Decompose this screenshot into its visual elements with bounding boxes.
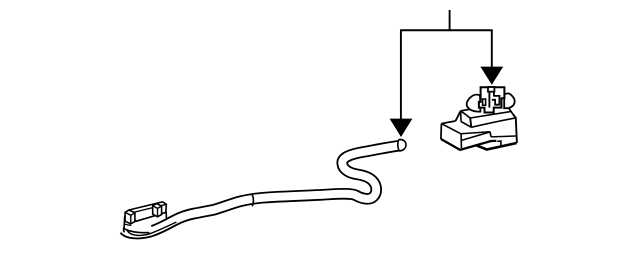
- platform front top edge: [461, 111, 471, 118]
- callout horizontal: [400, 29, 493, 31]
- cable front segment redraw (passes in front of block base): [124, 139, 406, 235]
- front band upper line: [461, 132, 490, 134]
- inner curl line: [127, 222, 177, 235]
- clip top notch: [488, 87, 494, 92]
- callout right vertical: [491, 30, 493, 68]
- left post: [125, 210, 135, 224]
- neck step: [509, 108, 513, 114]
- cable end cap: [398, 139, 406, 150]
- back wall: [129, 202, 166, 222]
- base slab: [124, 212, 167, 232]
- arrowhead left: [390, 119, 413, 137]
- left connector block: [124, 202, 167, 233]
- grommet right lobe: [504, 93, 514, 108]
- right edge: [513, 114, 517, 143]
- platform front-right vertical: [470, 118, 471, 127]
- wire segment over block (white core): [153, 213, 195, 230]
- platform left steep edge: [456, 111, 461, 121]
- cable tube (full path, drawn first): [124, 145, 402, 233]
- arrowhead right: [480, 67, 503, 85]
- front-left corner vertical: [460, 134, 462, 148]
- silhouette fill: [441, 108, 517, 150]
- platform front bottom edge: [461, 122, 471, 128]
- clip center vertical: [488, 92, 490, 108]
- right connector body: [441, 87, 517, 150]
- top back edge: [441, 121, 455, 124]
- curl end cap: [123, 227, 126, 232]
- left face edge: [440, 124, 443, 139]
- right post inner edges: [153, 206, 162, 217]
- clip: [479, 87, 505, 112]
- front band lower line: [461, 132, 490, 140]
- right post: [153, 204, 162, 217]
- post-base junction line: [125, 224, 132, 225]
- end face top edge: [441, 124, 461, 134]
- ledge front long edge: [471, 118, 515, 127]
- callout left vertical: [400, 30, 402, 120]
- tab hook tick: [497, 141, 501, 146]
- left post inner edges: [125, 212, 135, 224]
- clip left window: [483, 99, 486, 105]
- ledge top edge: [470, 112, 511, 119]
- grommet left lobe: [467, 95, 481, 112]
- clip spiral: [492, 92, 500, 105]
- front mid horizontal right: [491, 135, 516, 138]
- platform front-left vertical: [460, 111, 462, 122]
- bottom tab edge: [476, 143, 517, 150]
- callout stem: [449, 10, 451, 31]
- notch step: [490, 132, 491, 137]
- wall top band line: [133, 204, 167, 212]
- wire outer edges (black band): [124, 145, 402, 233]
- platform back edge: [461, 108, 477, 111]
- bottom thick edges: [441, 139, 497, 150]
- wire segment over block (black band): [153, 213, 195, 230]
- collar on cable: [252, 194, 254, 206]
